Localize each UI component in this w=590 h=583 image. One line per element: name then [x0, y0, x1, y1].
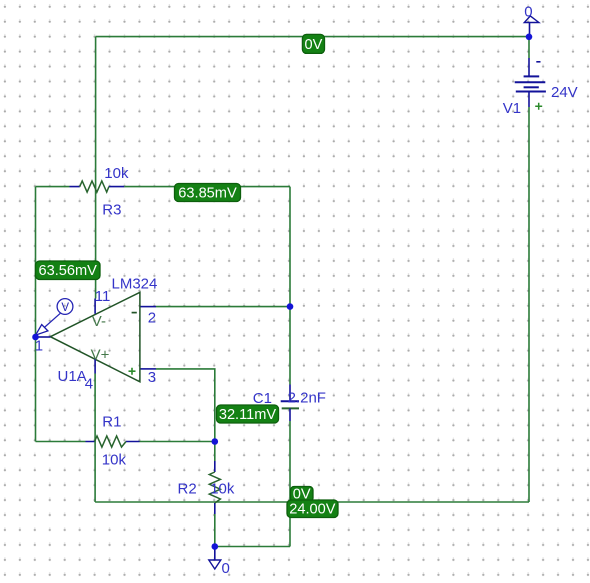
wire pin3 to R1/R2 node: [156, 369, 215, 442]
wire R1 row left segment: [36, 441, 86, 443]
svg-text:0V: 0V: [304, 37, 322, 53]
svg-text:0: 0: [222, 560, 230, 577]
wire C1 bottom vertical down to ground row: [289, 421, 291, 547]
bias label 24.00V: [287, 500, 338, 518]
V1 plate long 2: [516, 91, 546, 93]
wire ground row to C1 branch: [215, 546, 290, 548]
bias label 32.11mV: [217, 405, 279, 423]
svg-text:3: 3: [148, 369, 156, 386]
svg-text:V1: V1: [503, 100, 521, 117]
wire R1 row right segment: [140, 441, 215, 443]
C1 top plate: [281, 400, 299, 402]
svg-text:24.00V: 24.00V: [289, 501, 336, 517]
svg-text:24V: 24V: [551, 84, 578, 101]
wire R3 row left segment: [36, 186, 70, 188]
U1A inverting input pin 2 lead: [141, 306, 157, 308]
R3 pin leads: [70, 186, 125, 188]
R2 pin leads: [214, 461, 216, 514]
R1 zigzag body: [95, 436, 127, 447]
svg-text:LM324: LM324: [112, 276, 158, 293]
svg-text:10k: 10k: [210, 481, 235, 498]
R3 zigzag body: [80, 181, 109, 192]
junction node ground bottom: [212, 543, 219, 550]
C1 bottom pin lead: [289, 408, 291, 421]
svg-text:63.85mV: 63.85mV: [178, 186, 237, 202]
ground stub top right: [529, 23, 531, 37]
bias label 63.56mV: [36, 261, 101, 280]
svg-text:4: 4: [85, 376, 93, 393]
C1 top pin lead: [289, 385, 291, 402]
junction node R1/R2/pin3: [212, 438, 219, 445]
voltage probe marker V: [36, 299, 73, 336]
R1 pin leads: [86, 441, 140, 443]
svg-text:V-: V-: [92, 313, 106, 330]
V1 plate long 1: [515, 81, 546, 83]
wire left vertical from top rail down to op-amp V- pin: [95, 37, 97, 299]
svg-text:2.2nF: 2.2nF: [288, 390, 326, 407]
battery V1 24V DC source: [503, 58, 578, 117]
svg-text:10k: 10k: [102, 452, 127, 469]
probe arrow shaft: [36, 313, 61, 335]
resistor R1: [86, 414, 140, 469]
wire right vertical battery bottom to 24V rail: [528, 107, 530, 502]
svg-text:32.11mV: 32.11mV: [219, 407, 277, 423]
V1 minus polarity mark: [536, 61, 540, 63]
svg-text:10k: 10k: [104, 165, 129, 182]
ground symbol 0 top right: [524, 3, 539, 37]
wire left output rail: [35, 187, 37, 442]
bias label 0V top: [302, 34, 324, 53]
U1A V+ power pin 4 lead: [94, 359, 96, 374]
svg-text:V+: V+: [91, 347, 110, 364]
ground symbol 0 bottom: [209, 547, 230, 578]
V1 negative pin lead: [528, 58, 530, 76]
V1 plate short 1: [524, 75, 540, 77]
V1 plate short 2: [524, 86, 539, 88]
wire R2 bottom segment to ground node: [214, 514, 216, 547]
svg-text:2: 2: [148, 310, 156, 327]
wire pin2 to feedback node: [156, 306, 290, 308]
bias label 0V bottom: [291, 487, 314, 503]
svg-text:C1: C1: [253, 390, 272, 407]
svg-text:R3: R3: [102, 202, 121, 219]
svg-text:U1A: U1A: [58, 368, 87, 385]
resistor R3: [70, 165, 129, 219]
svg-text:11: 11: [95, 288, 111, 305]
svg-text:R1: R1: [102, 414, 121, 431]
svg-text:0: 0: [524, 3, 532, 20]
wire bottom 24V rail: [95, 501, 529, 503]
wire feedback vertical down to C1: [289, 187, 291, 385]
bias label 63.85mV: [175, 184, 241, 202]
R2 zigzag body: [209, 472, 220, 503]
V1 plus polarity mark: [535, 103, 542, 110]
wire top 0V rail: [96, 36, 529, 38]
wire R2 top segment: [214, 442, 216, 462]
ground triangle top right: [524, 16, 539, 23]
junction node op-amp output: [32, 334, 39, 341]
probe arrowhead: [36, 325, 48, 336]
U1A triangle body: [50, 292, 139, 382]
junction node pin2/feedback: [287, 303, 294, 310]
wire right vertical battery top: [528, 37, 530, 58]
U1A non-inverting input plus mark: [129, 368, 136, 375]
probe circle: [57, 299, 73, 315]
ground stub bottom: [214, 547, 216, 561]
wire R3 row right segment to feedback node: [124, 186, 290, 188]
U1A V- power pin 11 lead: [94, 299, 96, 314]
wire op-amp V+ pin4 down to 24V rail: [94, 374, 96, 503]
op-amp U1A LM324: [35, 276, 158, 393]
svg-text:R2: R2: [178, 481, 197, 498]
capacitor C1: [253, 385, 326, 422]
V1 positive pin lead: [528, 92, 530, 108]
svg-text:63.56mV: 63.56mV: [38, 263, 97, 279]
ground triangle bottom: [209, 560, 221, 569]
U1A output pin 1 lead: [36, 336, 51, 338]
svg-text:V: V: [61, 302, 69, 314]
resistor R2: [178, 461, 235, 514]
junction node top right: [526, 34, 533, 41]
U1A non-inverting input pin 3 lead: [141, 368, 157, 370]
U1A inverting input minus mark: [132, 312, 137, 314]
C1 bottom plate: [282, 407, 299, 409]
